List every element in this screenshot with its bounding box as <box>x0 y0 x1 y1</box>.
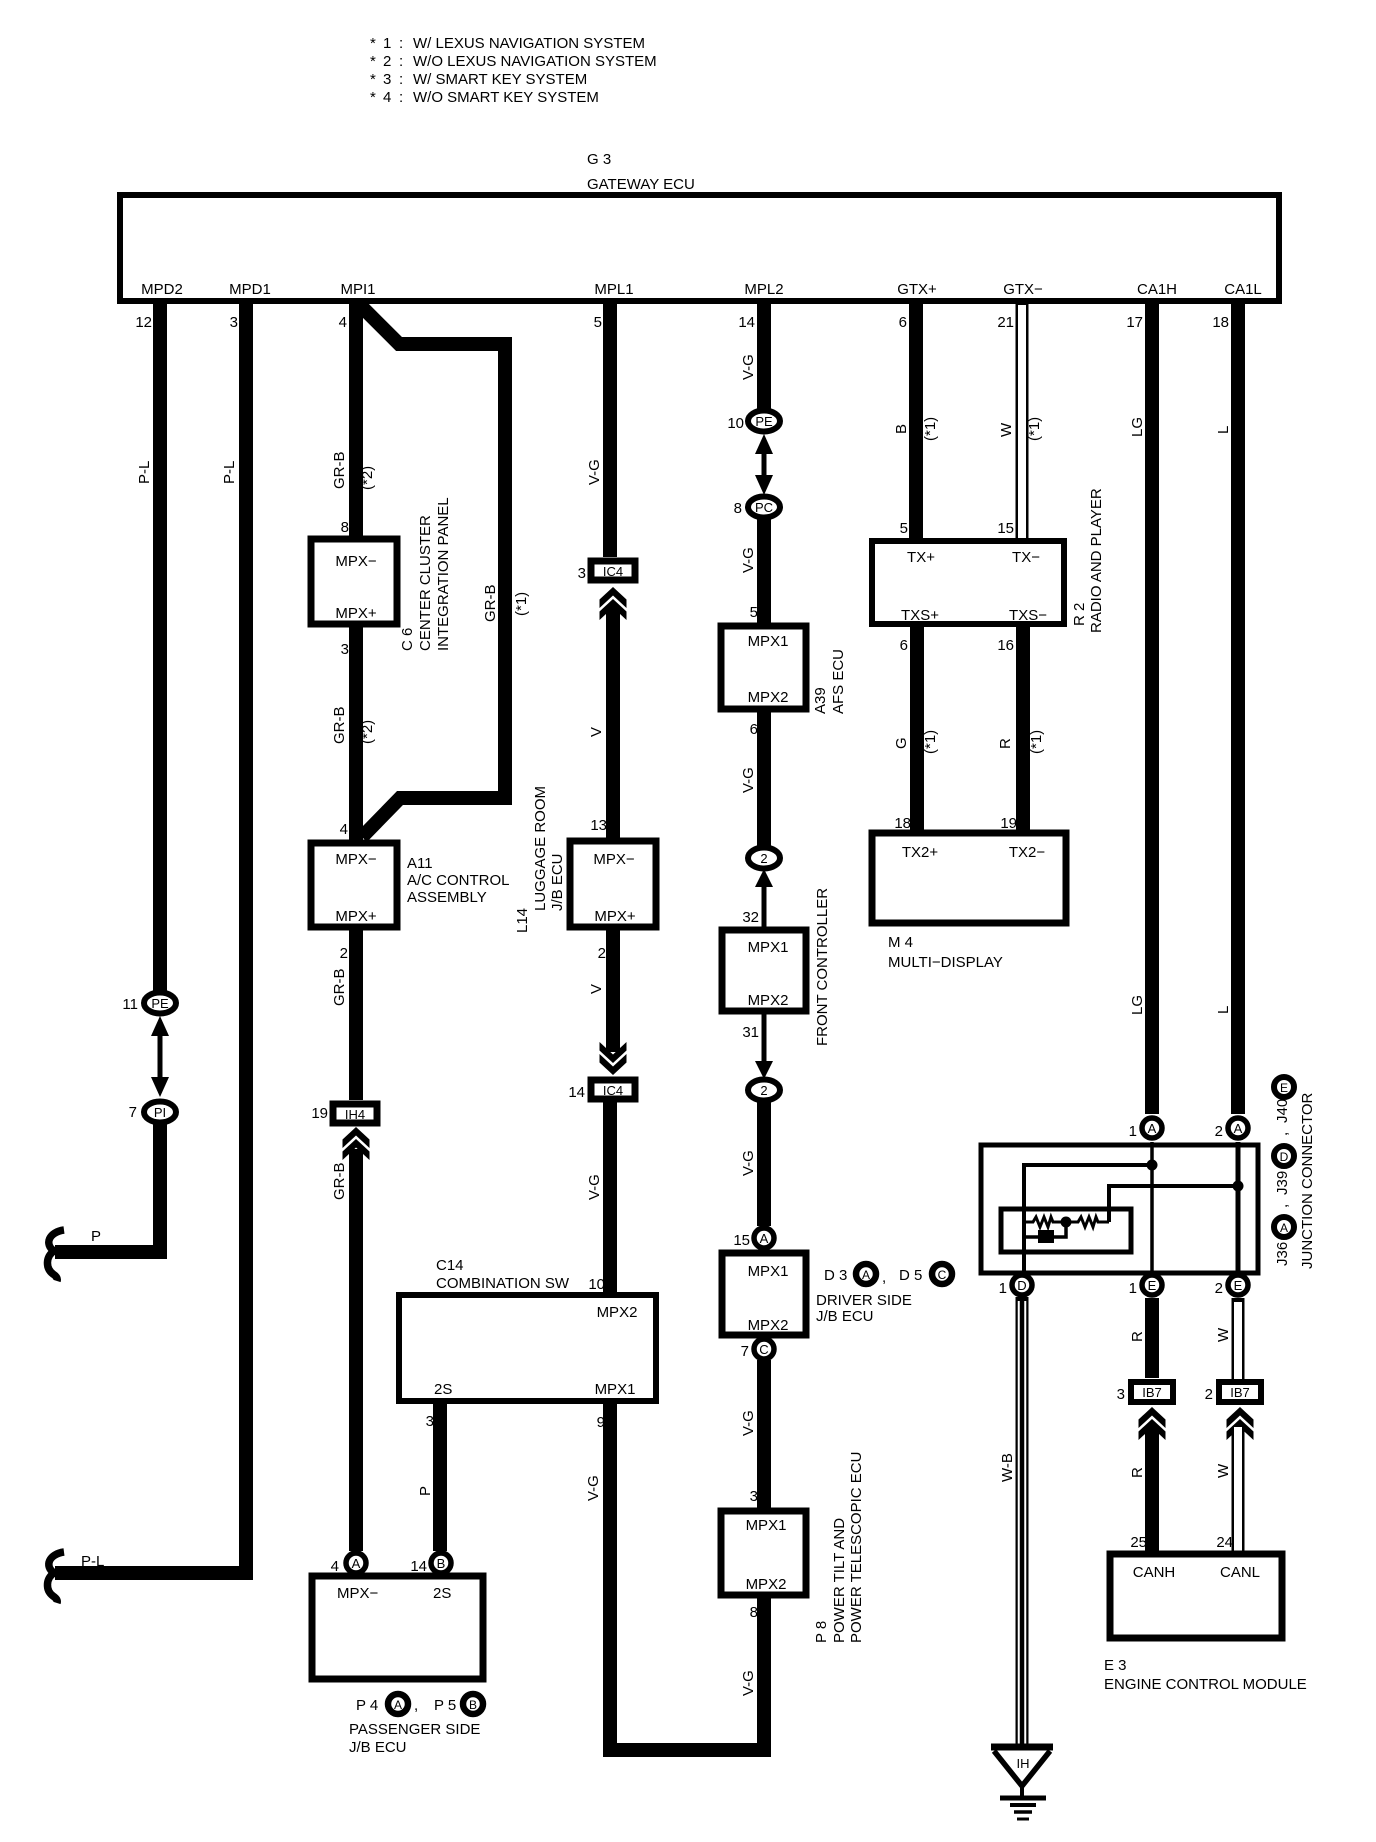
connector PC pin8 <box>734 497 780 518</box>
junction internal wire to pin D <box>1024 1165 1152 1276</box>
connector PE pin11 <box>122 993 176 1014</box>
pin 1 circle A junction top <box>1129 1118 1162 1140</box>
svg-text:LUGGAGE ROOM: LUGGAGE ROOM <box>532 786 549 911</box>
svg-text:POWER TILT AND: POWER TILT AND <box>831 1518 848 1643</box>
svg-text:A39: A39 <box>812 687 829 714</box>
svg-text:P-L: P-L <box>136 461 153 484</box>
svg-text:*: * <box>370 53 376 70</box>
svg-text:MPX−: MPX− <box>335 553 377 570</box>
svg-text:A: A <box>862 1268 870 1282</box>
gateway pin numbers <box>135 314 1229 331</box>
svg-text:E: E <box>1148 1278 1157 1293</box>
svg-text:2: 2 <box>383 53 391 70</box>
ECU P8 power tilt telescopic box <box>721 1511 806 1595</box>
pass-through arrows above IC4 pointing down <box>600 1042 627 1075</box>
svg-text:P 5: P 5 <box>434 1697 456 1714</box>
connector IB7 pin3 <box>1117 1382 1173 1403</box>
svg-text:V-G: V-G <box>585 1475 602 1501</box>
svg-text:25: 25 <box>1130 1534 1147 1551</box>
svg-text:3: 3 <box>426 1413 434 1430</box>
wire GTX+ pin6 B (*1) down to R2 <box>909 301 923 541</box>
label P4 A P5 B passenger side J/B ECU <box>349 1694 483 1756</box>
svg-text:2: 2 <box>598 945 606 962</box>
svg-text:11: 11 <box>122 996 138 1013</box>
svg-text:E: E <box>1234 1278 1243 1293</box>
svg-text:V-G: V-G <box>586 1174 603 1200</box>
svg-text::: : <box>399 89 403 106</box>
svg-text:15: 15 <box>733 1232 750 1249</box>
wire W hollow from IB7 to E3 <box>1232 1427 1245 1556</box>
pin 15 circle A of driver J/B <box>733 1228 774 1249</box>
svg-text:MPX+: MPX+ <box>335 605 377 622</box>
wire R from pin 1E to IB7 <box>1145 1298 1159 1378</box>
svg-text:GATEWAY ECU: GATEWAY ECU <box>587 176 695 193</box>
svg-text:3: 3 <box>230 314 238 331</box>
svg-text:24: 24 <box>1216 1534 1233 1551</box>
svg-text:IH: IH <box>1017 1756 1030 1771</box>
radio R2 box <box>872 541 1064 624</box>
wire CA1H pin17 LG down to junction <box>1145 301 1159 1114</box>
svg-text:19: 19 <box>1000 815 1017 832</box>
svg-text:M 4: M 4 <box>888 934 913 951</box>
svg-text:V-G: V-G <box>740 767 757 793</box>
svg-text:R: R <box>1129 1467 1146 1478</box>
junction internal bus CANH vertical <box>1150 1142 1154 1276</box>
svg-text:IC4: IC4 <box>603 1083 623 1098</box>
gateway ECU G3 box <box>120 195 1279 301</box>
svg-text:1: 1 <box>999 1280 1007 1297</box>
svg-text:19: 19 <box>311 1105 328 1122</box>
svg-text:(*1): (*1) <box>1026 417 1043 441</box>
svg-text:(*1): (*1) <box>922 730 939 754</box>
svg-text:GR-B: GR-B <box>331 1163 348 1201</box>
svg-text:1: 1 <box>1129 1123 1137 1140</box>
svg-text:GR-B: GR-B <box>331 452 348 490</box>
ECU C6 center cluster integration panel box <box>311 539 397 624</box>
connector circle 2 lower <box>748 1080 780 1101</box>
wire MPL1 pin5 V-G down to IC4 <box>603 301 617 557</box>
wire IH4 to passenger J/B GR-B <box>349 1149 363 1551</box>
svg-text:21: 21 <box>997 314 1014 331</box>
double arrow PE to PI <box>151 1016 169 1097</box>
svg-text:2S: 2S <box>434 1381 452 1398</box>
svg-text:8: 8 <box>341 519 349 536</box>
svg-text:P-L: P-L <box>221 461 238 484</box>
wire PI down and left to P pigtail <box>55 1122 160 1252</box>
svg-text:INTEGRATION PANEL: INTEGRATION PANEL <box>435 497 452 651</box>
svg-text:W/ LEXUS NAVIGATION SYSTEM: W/ LEXUS NAVIGATION SYSTEM <box>413 35 645 52</box>
svg-text:L14: L14 <box>514 908 531 933</box>
pass-through arrows below IH4 <box>343 1127 370 1160</box>
svg-text:V: V <box>588 984 605 994</box>
svg-text:2S: 2S <box>433 1585 451 1602</box>
svg-text:A: A <box>1280 1221 1288 1235</box>
svg-text:TX+: TX+ <box>907 549 935 566</box>
svg-text:2: 2 <box>760 851 767 866</box>
wire W-B hollow from pin D to ground <box>1016 1297 1029 1750</box>
svg-text:PASSENGER SIDE: PASSENGER SIDE <box>349 1721 480 1738</box>
svg-text:L: L <box>1215 1006 1232 1014</box>
svg-text:J/B ECU: J/B ECU <box>816 1308 874 1325</box>
svg-text:2: 2 <box>340 945 348 962</box>
wire TXS+ G (*1) down to M4 <box>910 624 924 833</box>
wire A11 to IH4 GR-B <box>349 927 363 1100</box>
wire circle2 to driver J/B V-G <box>757 1101 771 1226</box>
svg-text::: : <box>399 35 403 52</box>
svg-text:P: P <box>417 1486 434 1496</box>
svg-text:C: C <box>759 1342 768 1357</box>
legend notes <box>370 35 657 106</box>
svg-text:(*2): (*2) <box>359 466 376 490</box>
svg-text:J/B ECU: J/B ECU <box>549 853 566 911</box>
svg-text:V-G: V-G <box>740 354 757 380</box>
svg-text:MPD2: MPD2 <box>141 281 183 298</box>
svg-text:*: * <box>370 35 376 52</box>
svg-text:10: 10 <box>727 415 744 432</box>
svg-text:1: 1 <box>1129 1280 1137 1297</box>
label A11 <box>407 855 510 906</box>
svg-text:MPX2: MPX2 <box>746 1576 787 1593</box>
pin 1 circle E junction bottom <box>1129 1275 1162 1297</box>
svg-text:6: 6 <box>750 721 758 738</box>
wire C14 2S P down to circle B <box>433 1401 447 1551</box>
double arrow PE to PC <box>755 434 773 495</box>
svg-text:IH4: IH4 <box>345 1107 365 1122</box>
svg-text:DRIVER SIDE: DRIVER SIDE <box>816 1292 912 1309</box>
svg-text:8: 8 <box>734 500 742 517</box>
connector IB7 pin2 <box>1205 1382 1261 1403</box>
svg-text:3: 3 <box>341 641 349 658</box>
svg-text:A: A <box>394 1698 402 1712</box>
svg-text:8: 8 <box>750 1604 758 1621</box>
junction node dot on CANH <box>1147 1160 1158 1171</box>
label E3 engine control module <box>1104 1657 1307 1693</box>
svg-text:3: 3 <box>1117 1386 1125 1403</box>
svg-text:MPI1: MPI1 <box>340 281 375 298</box>
svg-text:AFS ECU: AFS ECU <box>830 649 847 714</box>
svg-text:MPX+: MPX+ <box>594 908 636 925</box>
wire PC to A39 V-G <box>757 519 771 626</box>
svg-text:TXS−: TXS− <box>1009 607 1047 624</box>
svg-text:10: 10 <box>588 1276 605 1293</box>
wire GTX- pin21 W (*1) hollow down to R2 <box>1016 299 1029 543</box>
svg-text:J39: J39 <box>1274 1171 1291 1195</box>
svg-text:CANH: CANH <box>1133 1564 1176 1581</box>
svg-text:MPX2: MPX2 <box>748 689 789 706</box>
junction node dot resistor midpoint <box>1061 1217 1072 1228</box>
svg-text:R 2: R 2 <box>1071 603 1088 626</box>
svg-text:PE: PE <box>151 996 169 1011</box>
capacitor body <box>1038 1230 1054 1243</box>
resistor R2 zigzag <box>1071 1217 1109 1227</box>
svg-text:V-G: V-G <box>740 1670 757 1696</box>
resistor R1 zigzag <box>1024 1217 1061 1227</box>
svg-text:V: V <box>588 727 605 737</box>
svg-text:12: 12 <box>135 314 152 331</box>
wire MPD1 pin3 P-L down and left <box>55 301 246 1573</box>
svg-text:3: 3 <box>383 71 391 88</box>
svg-text:R: R <box>1129 1331 1146 1342</box>
svg-text:CANL: CANL <box>1220 1564 1260 1581</box>
svg-text:MPL1: MPL1 <box>594 281 633 298</box>
svg-text:P 8: P 8 <box>813 1621 830 1643</box>
wire R from IB7 to E3 <box>1145 1427 1159 1553</box>
svg-text:3: 3 <box>750 1488 758 1505</box>
svg-text::: : <box>399 53 403 70</box>
pin 7 circle C of driver J/B <box>741 1339 774 1360</box>
svg-text:MPX1: MPX1 <box>748 633 789 650</box>
svg-text:14: 14 <box>410 1558 427 1575</box>
svg-text:IB7: IB7 <box>1230 1385 1250 1400</box>
svg-text:4: 4 <box>340 821 348 838</box>
pin 14 circle B of passenger J/B <box>410 1553 451 1575</box>
svg-text:LG: LG <box>1129 417 1146 437</box>
svg-text:PC: PC <box>755 500 773 515</box>
svg-text:,: , <box>1274 1132 1291 1136</box>
svg-text:,: , <box>1274 1204 1291 1208</box>
svg-text:D: D <box>1280 1150 1289 1164</box>
svg-text:W-B: W-B <box>999 1453 1016 1482</box>
svg-text:,: , <box>882 1269 886 1286</box>
svg-text:MPX2: MPX2 <box>748 992 789 1009</box>
connector circle 2 <box>748 848 780 869</box>
ECU A39 AFS box <box>721 626 806 709</box>
junction internal wire to resistor <box>1109 1186 1238 1222</box>
svg-text:P: P <box>91 1228 101 1245</box>
connector PI pin7 <box>129 1102 176 1123</box>
svg-text:C 6: C 6 <box>399 628 416 651</box>
svg-text:P 4: P 4 <box>356 1697 378 1714</box>
svg-text:5: 5 <box>900 520 908 537</box>
svg-text:POWER TELESCOPIC ECU: POWER TELESCOPIC ECU <box>848 1452 865 1643</box>
svg-text:18: 18 <box>1212 314 1229 331</box>
svg-text:7: 7 <box>741 1343 749 1360</box>
svg-text:TX2+: TX2+ <box>902 844 939 861</box>
wire L14 to IC4 V <box>606 927 620 1052</box>
svg-text:E: E <box>1280 1081 1288 1095</box>
svg-text:J/B ECU: J/B ECU <box>349 1739 407 1756</box>
pin 1 circle D junction bottom <box>999 1275 1032 1297</box>
svg-text:RADIO AND PLAYER: RADIO AND PLAYER <box>1088 488 1105 633</box>
svg-text:B: B <box>893 424 910 434</box>
svg-text:5: 5 <box>750 604 758 621</box>
svg-text:W: W <box>1215 1463 1232 1478</box>
ECU E3 engine control module box <box>1110 1554 1282 1638</box>
display M4 multi-display box <box>872 833 1066 923</box>
svg-text:MPX−: MPX− <box>593 851 635 868</box>
svg-text:16: 16 <box>997 637 1014 654</box>
svg-text:CA1H: CA1H <box>1137 281 1177 298</box>
gateway terminal labels <box>141 281 1262 298</box>
svg-text:E 3: E 3 <box>1104 1657 1127 1674</box>
svg-text:W: W <box>998 422 1015 437</box>
svg-text:17: 17 <box>1126 314 1143 331</box>
svg-text:TX−: TX− <box>1012 549 1040 566</box>
svg-text:COMBINATION SW: COMBINATION SW <box>436 1275 570 1292</box>
svg-text::: : <box>399 71 403 88</box>
gateway ECU G3 label <box>587 151 695 193</box>
svg-text:MPX−: MPX− <box>337 1585 379 1602</box>
svg-text:MPX−: MPX− <box>335 851 377 868</box>
wire W hollow from pin 2E to IB7 <box>1232 1298 1245 1380</box>
pin 2 circle A junction top <box>1215 1118 1248 1140</box>
svg-text:(*2): (*2) <box>359 720 376 744</box>
svg-text:G 3: G 3 <box>587 151 611 168</box>
svg-text:PE: PE <box>755 414 773 429</box>
svg-text:CA1L: CA1L <box>1224 281 1262 298</box>
junction connector box <box>981 1145 1258 1273</box>
connector PE pin10 <box>727 411 780 433</box>
svg-text:A11: A11 <box>407 855 433 872</box>
wire IC4 to C14 V-G <box>603 1099 617 1298</box>
pin 4 circle A of passenger J/B <box>331 1553 366 1575</box>
ECU passenger side J/B box <box>312 1576 483 1679</box>
svg-text:4: 4 <box>339 314 347 331</box>
svg-text:2: 2 <box>1205 1386 1213 1403</box>
svg-text:*: * <box>370 71 376 88</box>
svg-text:1: 1 <box>383 35 391 52</box>
svg-text:LG: LG <box>1129 995 1146 1015</box>
ECU front controller box <box>722 930 806 1011</box>
svg-text:2: 2 <box>760 1083 767 1098</box>
svg-text:V-G: V-G <box>740 1150 757 1176</box>
svg-text:G: G <box>893 737 910 749</box>
connector IH4 pin19 <box>311 1104 377 1123</box>
svg-text:A/C CONTROL: A/C CONTROL <box>407 872 510 889</box>
switch C14 combination SW box <box>399 1295 656 1401</box>
svg-text:GR-B: GR-B <box>331 969 348 1007</box>
svg-text:3: 3 <box>578 565 586 582</box>
svg-text:C: C <box>938 1268 947 1282</box>
svg-text:5: 5 <box>594 314 602 331</box>
junction internal bus CANL vertical <box>1236 1142 1241 1276</box>
svg-text:B: B <box>437 1556 446 1571</box>
pass-through arrows below IB7 <box>1139 1407 1166 1440</box>
svg-text:J36: J36 <box>1274 1242 1291 1266</box>
svg-text:W/ SMART KEY SYSTEM: W/ SMART KEY SYSTEM <box>413 71 587 88</box>
label C14 combination switch <box>436 1257 570 1292</box>
svg-text:D 5: D 5 <box>899 1267 922 1284</box>
svg-text:MPL2: MPL2 <box>744 281 783 298</box>
svg-text:31: 31 <box>742 1024 759 1041</box>
wire MPL2 pin14 V-G down to PE <box>757 301 771 410</box>
arrow up into circle 2 <box>755 869 773 927</box>
svg-text:MPX1: MPX1 <box>595 1381 636 1398</box>
pass-through arrows below IC4 <box>600 587 627 620</box>
svg-text:A: A <box>352 1556 361 1571</box>
svg-text:*: * <box>370 89 376 106</box>
wire MPI1 pin4 GR-B down to C6 <box>349 301 363 540</box>
svg-text:TX2−: TX2− <box>1009 844 1046 861</box>
svg-text:14: 14 <box>568 1084 585 1101</box>
connector IC4 pin3 <box>578 561 635 582</box>
svg-text:FRONT CONTROLLER: FRONT CONTROLLER <box>814 888 831 1046</box>
label M4 multi-display <box>888 934 1003 971</box>
pass-through arrows below IB7 right <box>1227 1407 1254 1440</box>
svg-text:V-G: V-G <box>586 459 603 485</box>
pin 2 circle E junction bottom <box>1215 1275 1248 1297</box>
svg-text:L: L <box>1215 426 1232 434</box>
svg-text:D: D <box>1017 1278 1026 1293</box>
svg-text:MPX2: MPX2 <box>748 1317 789 1334</box>
connector IC4 pin14 <box>568 1080 635 1101</box>
pigtail hook end of P wire <box>47 1230 64 1281</box>
svg-text:6: 6 <box>899 314 907 331</box>
svg-text:R: R <box>997 738 1014 749</box>
wire A39 to circle2 V-G <box>757 709 771 846</box>
svg-text:W/O LEXUS NAVIGATION SYSTEM: W/O LEXUS NAVIGATION SYSTEM <box>413 53 657 70</box>
wire TXS- R (*1) down to M4 <box>1016 624 1030 833</box>
svg-text:A: A <box>1234 1121 1243 1136</box>
svg-text:IB7: IB7 <box>1142 1385 1162 1400</box>
wire C6 to A11 GR-B (*2) <box>349 624 363 843</box>
svg-text:2: 2 <box>1215 1123 1223 1140</box>
svg-text:MPX1: MPX1 <box>748 939 789 956</box>
svg-text:ASSEMBLY: ASSEMBLY <box>407 889 487 906</box>
svg-text:TXS+: TXS+ <box>901 607 939 624</box>
svg-text:7: 7 <box>129 1104 137 1121</box>
svg-text:MPX1: MPX1 <box>748 1263 789 1280</box>
svg-text:15: 15 <box>997 520 1014 537</box>
svg-text:JUNCTION CONNECTOR: JUNCTION CONNECTOR <box>1299 1092 1316 1269</box>
junction termination inner box <box>1001 1209 1131 1252</box>
svg-text:,: , <box>414 1697 418 1714</box>
svg-text:GR-B: GR-B <box>331 707 348 745</box>
junction node dot on CANL <box>1233 1181 1244 1192</box>
svg-text:GTX+: GTX+ <box>897 281 937 298</box>
svg-text:MPX+: MPX+ <box>335 908 377 925</box>
label D3 A D5 C driver side J/B ECU <box>816 1264 952 1325</box>
svg-text:14: 14 <box>738 314 755 331</box>
svg-text:P-L: P-L <box>81 1553 104 1570</box>
pigtail hook end of P-L wire <box>47 1552 64 1603</box>
capacitor branch <box>1024 1222 1066 1237</box>
svg-text:GR-B: GR-B <box>482 585 499 623</box>
svg-text:W/O SMART KEY SYSTEM: W/O SMART KEY SYSTEM <box>413 89 599 106</box>
svg-text:MPX2: MPX2 <box>597 1304 638 1321</box>
svg-text:(*1): (*1) <box>922 417 939 441</box>
wire C14 MPX1 V-G down to MPL2 join <box>610 1401 764 1750</box>
svg-text:A: A <box>1148 1121 1157 1136</box>
svg-text:IC4: IC4 <box>603 564 623 579</box>
svg-text:13: 13 <box>590 817 607 834</box>
wire driver J/B to P8 V-G <box>757 1360 771 1512</box>
wire IC4 to L14 V <box>606 606 620 841</box>
svg-text:PI: PI <box>154 1105 166 1120</box>
svg-text:C14: C14 <box>436 1257 464 1274</box>
svg-text:4: 4 <box>383 89 391 106</box>
svg-text:D 3: D 3 <box>824 1267 847 1284</box>
svg-text:V-G: V-G <box>740 547 757 573</box>
svg-text:MPD1: MPD1 <box>229 281 271 298</box>
ground IH <box>991 1744 1053 1819</box>
arrow down from pin31 to circle 2 <box>755 1011 773 1079</box>
svg-text:W: W <box>1215 1327 1232 1342</box>
svg-text:6: 6 <box>900 637 908 654</box>
wire bypass branch GR-B (*1) around C6 <box>358 303 505 837</box>
svg-text:4: 4 <box>331 1558 339 1575</box>
svg-text:2: 2 <box>1215 1280 1223 1297</box>
svg-text:32: 32 <box>742 909 759 926</box>
svg-text:A: A <box>760 1231 769 1246</box>
svg-text:(*1): (*1) <box>1028 730 1045 754</box>
svg-text:V-G: V-G <box>740 1410 757 1436</box>
ECU L14 luggage room J/B box <box>570 841 656 927</box>
ECU A11 A/C control assembly box <box>311 843 397 927</box>
svg-text:J40: J40 <box>1274 1099 1291 1123</box>
svg-text:ENGINE CONTROL MODULE: ENGINE CONTROL MODULE <box>1104 1676 1307 1693</box>
svg-text:(*1): (*1) <box>513 592 530 616</box>
